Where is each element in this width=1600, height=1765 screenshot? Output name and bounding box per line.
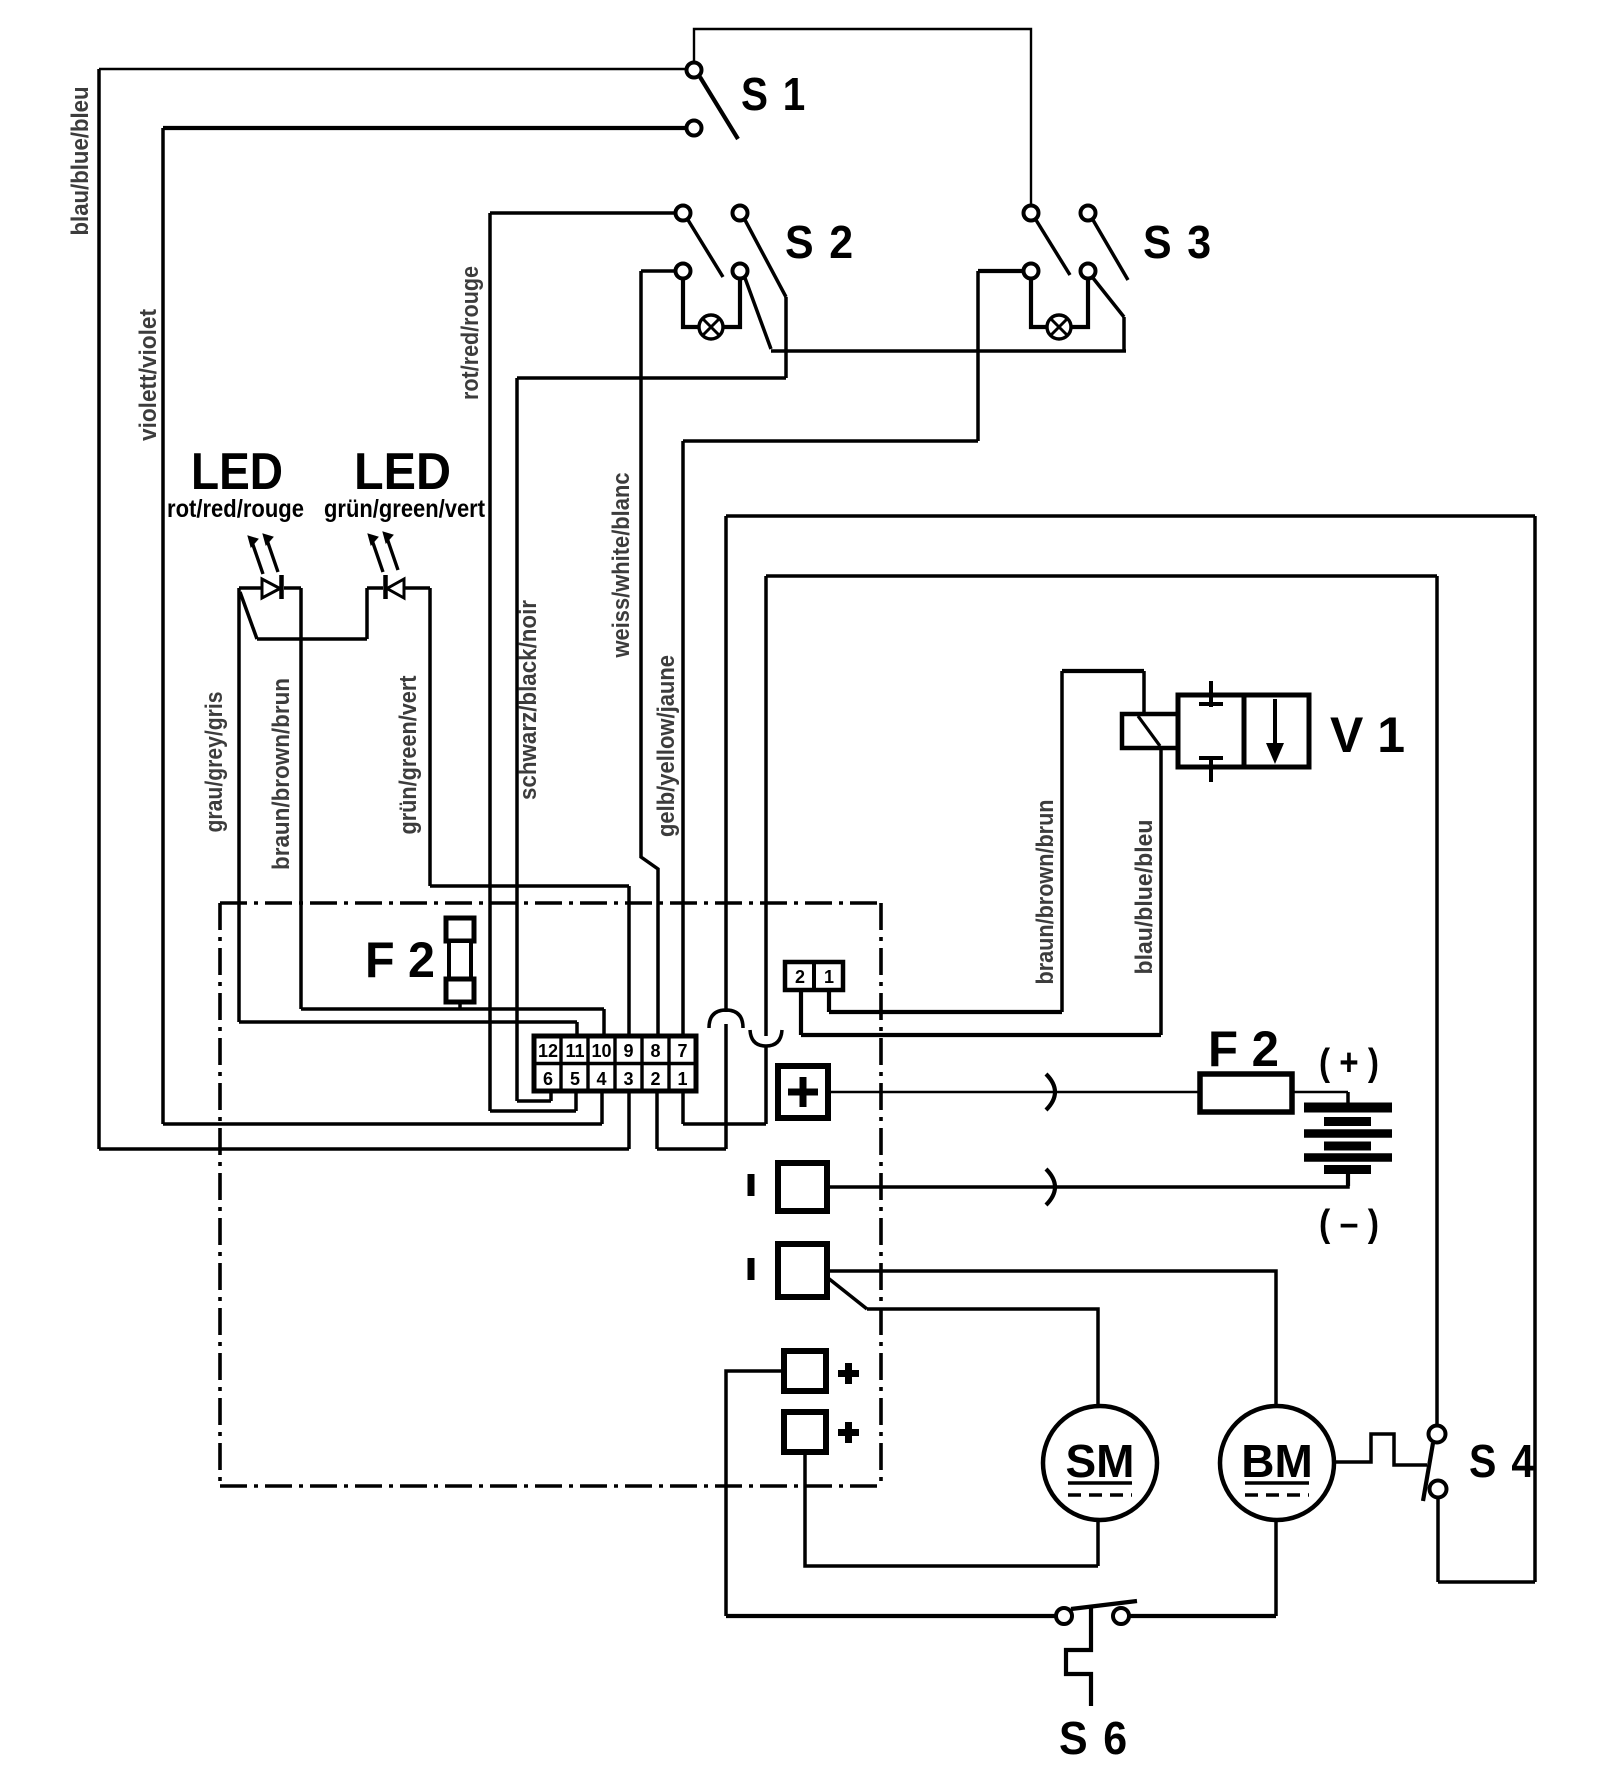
svg-text:3: 3 <box>623 1069 633 1089</box>
wire braun bottom horizontal to pin 10 riser <box>301 1007 604 1011</box>
wire schwarz horizontal <box>517 376 786 380</box>
switch S2 lower-left terminal <box>676 264 691 279</box>
svg-text:BM: BM <box>1241 1435 1313 1487</box>
wire battery negative stem <box>1346 1174 1350 1186</box>
inner wire loop top edge <box>766 574 1437 578</box>
wire pin 3 riser <box>627 1090 631 1149</box>
terminal box plus <box>778 1066 828 1118</box>
wire pin1 horizontal to inner loop <box>683 1122 766 1126</box>
wire braun V1 riser <box>1060 671 1064 1012</box>
svg-text:grau/grey/gris: grau/grey/gris <box>201 692 228 833</box>
control unit boundary dash-dot box <box>220 903 881 1486</box>
terminal box motor + upper <box>784 1351 826 1391</box>
fuse F2 upper cap <box>446 918 474 941</box>
switch S4 lower contact <box>1430 1481 1447 1498</box>
wire blau bottom horizontal to pin 3 riser <box>99 1147 629 1151</box>
svg-text:( + ): ( + ) <box>1319 1042 1379 1084</box>
battery plates <box>1304 1108 1392 1170</box>
wire S4 lower drop <box>1436 1498 1440 1582</box>
wire violett vertical <box>161 128 165 1124</box>
svg-text:gelb/yellow/jaune: gelb/yellow/jaune <box>653 655 680 837</box>
lamp S2 <box>699 315 723 339</box>
wire S6 right to BM <box>1130 1614 1276 1618</box>
connector separation cap on outer loop <box>709 1010 743 1028</box>
wire SM bottom stem <box>1096 1520 1100 1566</box>
switch S1 lower terminal <box>687 121 702 136</box>
plus symbol inside box <box>788 1077 818 1107</box>
fuse F2 battery <box>1200 1074 1292 1112</box>
wire rot horizontal from S2 <box>490 211 676 215</box>
svg-text:7: 7 <box>677 1041 687 1061</box>
switch S1 lever <box>700 77 738 139</box>
svg-text:F 2: F 2 <box>365 932 435 988</box>
switch S6 left contact <box>1056 1608 1072 1624</box>
wire S1 top link to S3 <box>694 29 1031 205</box>
switch S3 upper-right terminal <box>1081 206 1096 221</box>
svg-text:S 2: S 2 <box>785 216 855 268</box>
svg-text:2: 2 <box>650 1069 660 1089</box>
wire motor feed diagonal branch <box>828 1278 867 1309</box>
wire pin 9 riser <box>627 886 631 1038</box>
wire gelb horizontal <box>683 439 978 443</box>
wire X2 pin1 drop <box>827 990 831 1012</box>
svg-text:schwarz/black/noir: schwarz/black/noir <box>515 600 542 800</box>
wire X2 pin2 horizontal <box>801 1033 1161 1037</box>
separation point on positive wire <box>1046 1074 1055 1110</box>
valve V1 body right cell <box>1244 695 1309 767</box>
fuse F2 stub to braun rail <box>458 1002 462 1009</box>
switch S3 lever pole 1 <box>1036 220 1070 275</box>
wire S2 pole2 drop <box>784 297 788 378</box>
terminal box motor feed <box>778 1244 827 1297</box>
svg-text:blau/blue/bleu: blau/blue/bleu <box>67 87 94 236</box>
lamp S2 left lead <box>683 279 699 327</box>
svg-text:braun/brown/brun: braun/brown/brun <box>268 678 295 870</box>
outer wire loop left edge lower part <box>724 1024 728 1149</box>
switch S3 lever pole 2 <box>1093 220 1128 280</box>
valve V1 coil <box>1122 714 1178 748</box>
svg-text:S 1: S 1 <box>741 68 807 120</box>
terminal box minus <box>778 1163 827 1211</box>
outer wire loop top edge <box>726 514 1535 518</box>
connector X1 pin numbers bottom row 6 5 4 3 2 1 <box>543 1069 688 1089</box>
wire LED link diagonal <box>240 592 257 639</box>
inner wire loop left edge lower part <box>764 1046 768 1124</box>
svg-text:rot/red/rouge: rot/red/rouge <box>457 266 484 400</box>
svg-text:SM: SM <box>1066 1435 1135 1487</box>
svg-text:4: 4 <box>596 1069 606 1089</box>
wire pin 11 riser <box>575 1022 579 1038</box>
svg-text:grün/green/vert: grün/green/vert <box>395 676 422 835</box>
wire schwarz vertical <box>515 378 519 1101</box>
lamp S3 left lead <box>1031 279 1047 327</box>
svg-text:9: 9 <box>623 1041 633 1061</box>
wire braun V1 top horizontal <box>1062 669 1144 673</box>
minus bar symbol <box>748 1174 755 1196</box>
wire LED link horizontal <box>257 637 367 641</box>
wire pin 10 riser <box>602 1009 606 1038</box>
wire braun vertical <box>299 588 303 1009</box>
wire blau vertical left side <box>97 69 101 1149</box>
switch S3 lower-right terminal <box>1081 264 1096 279</box>
switch S6 right contact <box>1113 1608 1129 1624</box>
wire pin 5 riser <box>574 1090 578 1111</box>
terminal box motor + lower <box>784 1412 826 1452</box>
switch S4 lever <box>1423 1443 1433 1501</box>
switch S2 upper-left terminal <box>676 206 691 221</box>
switch S1 upper terminal <box>687 63 702 78</box>
svg-text:2: 2 <box>795 967 805 987</box>
outer wire loop right edge <box>1533 516 1537 1582</box>
svg-text:S 6: S 6 <box>1059 1712 1129 1764</box>
wire S3 contact diagonal <box>1093 278 1124 317</box>
wire violett bottom horizontal to pin 4 riser <box>163 1122 602 1126</box>
fuse F2 body <box>449 941 471 979</box>
wire braun V1 drop to coil <box>1142 671 1146 714</box>
wire pin2 horizontal to outer loop <box>657 1147 726 1151</box>
separation point on negative wire <box>1046 1169 1055 1205</box>
motor feed bar symbol <box>748 1258 755 1280</box>
svg-text:weiss/white/blanc: weiss/white/blanc <box>608 473 635 659</box>
lamp S2 right lead <box>723 279 740 327</box>
lamp S3 <box>1047 315 1071 339</box>
wire weiss vertical with jog <box>641 271 658 1038</box>
motor SM <box>1043 1406 1157 1520</box>
wire blau V1 riser <box>1159 748 1163 1035</box>
valve V1 upper port T <box>1199 681 1223 707</box>
fuse F2 lower cap <box>446 979 474 1002</box>
svg-text:1: 1 <box>824 967 834 987</box>
switch S4 actuator step from BM <box>1334 1434 1427 1465</box>
valve V1 body left cell <box>1178 695 1244 767</box>
wire gruen bottom horizontal to pin 9 riser <box>430 884 629 888</box>
svg-text:LED: LED <box>191 443 283 501</box>
svg-text:braun/brown/brun: braun/brown/brun <box>1032 800 1059 985</box>
LED red arrows <box>248 534 278 574</box>
wire BM bottom stem <box>1274 1520 1278 1616</box>
wire gruen vertical <box>428 588 432 886</box>
wire battery positive drop <box>1346 1092 1350 1103</box>
motor BM <box>1220 1406 1334 1520</box>
svg-text:( – ): ( – ) <box>1319 1203 1379 1245</box>
connector X1 pin numbers top row 12 11 10 9 8 7 <box>538 1041 688 1061</box>
wire S4 bottom link to outer loop <box>1438 1580 1535 1584</box>
lamp S3 right lead <box>1071 279 1088 327</box>
wire violett horizontal to S1 lower terminal <box>163 126 686 130</box>
wire grau bottom horizontal to pin 11 riser <box>239 1020 577 1024</box>
inner wire loop right edge <box>1435 576 1439 1426</box>
switch S2 upper-right terminal <box>733 206 748 221</box>
wire battery negative <box>827 1174 1348 1187</box>
svg-text:11: 11 <box>565 1041 584 1061</box>
svg-text:blau/blue/bleu: blau/blue/bleu <box>1131 820 1158 975</box>
svg-text:S 3: S 3 <box>1143 216 1213 268</box>
svg-text:LED: LED <box>354 443 451 501</box>
valve V1 lower port T <box>1199 758 1223 782</box>
wire motor feed to SM <box>867 1309 1098 1406</box>
switch S3 lower-left terminal <box>1024 264 1039 279</box>
wire weiss horizontal from S2 lower-left terminal <box>641 269 676 273</box>
switch S3 upper-left terminal <box>1024 206 1039 221</box>
wire S3 contact drop to rail <box>1122 317 1126 351</box>
wire pin 1 riser <box>681 1091 685 1124</box>
switch S2 lever pole 1 <box>688 220 723 277</box>
connector X1 block <box>534 1036 696 1091</box>
wire X2 pin2 drop <box>799 990 803 1035</box>
wire gelb vertical <box>681 441 685 1038</box>
outer wire loop left edge upper part <box>724 516 728 1012</box>
wire S2 contact diagonal to bottom rail <box>745 278 771 349</box>
svg-text:rot/red/rouge: rot/red/rouge <box>167 495 304 523</box>
svg-text:6: 6 <box>543 1069 553 1089</box>
wire X2 pin1 horizontal <box>829 1010 1062 1014</box>
wire pin 4 riser <box>600 1090 604 1124</box>
connector X2 block (2|1) <box>785 962 843 990</box>
wire grau vertical <box>237 588 241 1022</box>
switch S6 lever <box>1071 1601 1137 1609</box>
svg-text:grün/green/vert: grün/green/vert <box>324 495 486 523</box>
wire pin 6 riser <box>549 1090 553 1101</box>
LED green arrows <box>368 532 398 572</box>
svg-text:12: 12 <box>538 1041 558 1061</box>
svg-text:1: 1 <box>677 1069 687 1089</box>
wire schwarz bottom to pin 6 riser <box>517 1099 551 1103</box>
valve V1 flow arrow <box>1266 699 1284 764</box>
switch S6 actuator zigzag <box>1066 1606 1091 1706</box>
plus label upper <box>838 1363 859 1384</box>
svg-text:F 2: F 2 <box>1208 1021 1279 1077</box>
svg-text:V 1: V 1 <box>1330 707 1405 763</box>
wire S3 lower-left horizontal <box>978 269 1023 273</box>
inner wire loop left edge upper part <box>764 576 768 1036</box>
switch S2 lever pole 2 <box>745 220 786 297</box>
wire S6 loop bottom <box>726 1614 1056 1618</box>
wire battery positive <box>828 1091 1348 1093</box>
svg-text:8: 8 <box>650 1041 660 1061</box>
wire S3 left drop <box>976 271 980 441</box>
wire motor feed to BM <box>827 1271 1276 1406</box>
svg-text:10: 10 <box>591 1041 611 1061</box>
LED red diode <box>239 575 301 599</box>
svg-text:5: 5 <box>570 1069 580 1089</box>
svg-text:S 4: S 4 <box>1469 1435 1536 1487</box>
wire pin 2 riser <box>655 1091 659 1149</box>
plus label lower <box>838 1422 859 1443</box>
switch S4 upper contact <box>1429 1426 1446 1443</box>
svg-text:violett/violet: violett/violet <box>135 309 162 441</box>
wire LED link riser to green LED <box>365 588 369 639</box>
wire blau top horizontal to S1 upper terminal <box>99 68 686 70</box>
connector X2 pin numbers <box>795 967 834 987</box>
LED green diode <box>367 575 430 599</box>
wire lower + box to SM bottom <box>805 1452 1098 1566</box>
switch S2 lower-right terminal <box>733 264 748 279</box>
wire S2-S3 bottom rail <box>771 349 1126 353</box>
wire rot bottom horizontal to pin 5 riser <box>490 1109 576 1113</box>
wire upper + box to S6 loop <box>726 1371 784 1616</box>
connector separation cup on inner loop <box>750 1030 782 1046</box>
wire rot vertical <box>488 213 492 1111</box>
